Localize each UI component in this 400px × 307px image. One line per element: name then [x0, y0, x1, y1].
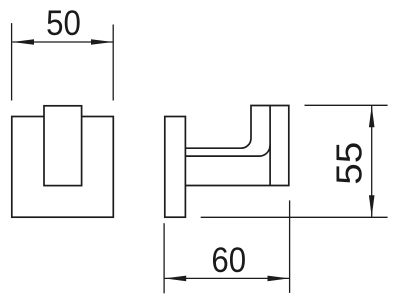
svg-text:50: 50 — [46, 4, 81, 43]
dim 60 extension line right — [289, 200, 291, 293]
side view: arm lower edge with fillet — [185, 145, 270, 156]
dim 50 dimension line — [12, 41, 113, 43]
dim 55 arrow top — [369, 106, 375, 128]
svg-text:55: 55 — [329, 142, 370, 185]
dim 55 extension line bottom — [201, 216, 388, 218]
dim 50 arrow right — [91, 39, 113, 45]
dim 60 arrow right — [268, 276, 290, 282]
dim 50 arrow left — [12, 39, 34, 45]
front view: hook post (inner rectangle) — [44, 106, 82, 186]
side view: hook arm and post outline — [185, 106, 288, 186]
dim 60 arrow left — [165, 276, 187, 282]
dim 60 extension line left — [163, 223, 165, 293]
svg-text:60: 60 — [211, 241, 246, 280]
dim 50 extension line left — [11, 23, 13, 100]
dim 55 dimension line — [371, 106, 373, 217]
dim 55 arrow bottom — [369, 195, 375, 217]
dim 50 extension line right — [112, 25, 114, 101]
dim 60 dimension line — [165, 277, 290, 279]
front view: body outline (outer square) — [12, 117, 114, 218]
side view: post inner edge line — [269, 106, 271, 186]
dim 55 extension line top — [305, 104, 388, 106]
side view: wall plate — [165, 117, 186, 218]
